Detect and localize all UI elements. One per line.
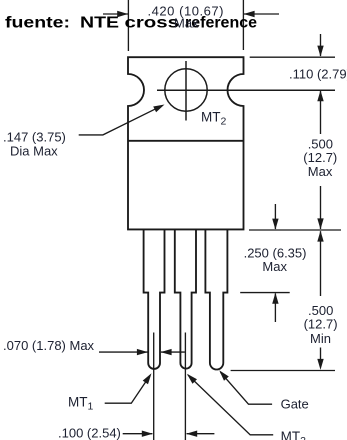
- svg-text:Max: Max: [174, 16, 199, 31]
- dim .420 left arrow shaft: [103, 13, 128, 15]
- arrowhead .070 left: [137, 349, 148, 355]
- lead1 center extension line: [153, 333, 155, 440]
- arrowhead MT2 leader: [187, 374, 197, 384]
- arrowhead .100 right: [186, 431, 197, 437]
- extension line at package top right: [250, 56, 335, 58]
- svg-text:MT2: MT2: [281, 429, 307, 440]
- dim .500 Max line lower part: [320, 186, 322, 229]
- arrowhead .250 down: [272, 219, 278, 230]
- dim .420 right extension line: [242, 0, 244, 50]
- tab/body separator line: [128, 140, 244, 142]
- svg-text:.100 (2.54): .100 (2.54): [58, 426, 121, 440]
- svg-text:(12.7): (12.7): [304, 317, 338, 332]
- dim .420 left extension line: [127, 0, 129, 51]
- svg-text:MT2: MT2: [201, 110, 227, 128]
- arrowhead .500min up: [317, 231, 323, 242]
- dim .500 Min line upper part: [320, 231, 322, 296]
- extension line at lead step: [240, 292, 290, 294]
- package outline TO-220 body: [128, 57, 244, 229]
- arrowhead .500min down: [317, 359, 323, 370]
- leader MT1: [105, 376, 150, 404]
- dim .070 right shaft: [161, 351, 185, 353]
- arrowhead .420 right: [244, 11, 255, 17]
- arrowhead Gate leader: [219, 370, 229, 380]
- svg-text:fuente:: fuente:: [5, 15, 70, 32]
- dim .100 right shaft: [187, 433, 215, 435]
- dim .070 left shaft: [99, 351, 148, 353]
- arrowhead .070 right: [161, 349, 172, 355]
- svg-text:Max: Max: [262, 259, 287, 274]
- svg-text:Dia Max: Dia Max: [10, 144, 58, 159]
- dim .110 down arrow shaft: [320, 34, 322, 56]
- svg-text:Min: Min: [310, 331, 331, 346]
- arrowhead .110 down: [317, 46, 323, 57]
- svg-text:.110 (2.79): .110 (2.79): [289, 67, 347, 82]
- arrowhead .420 left: [117, 11, 128, 17]
- svg-text:NTE: NTE: [80, 15, 119, 32]
- dim .250 upper arrow shaft: [274, 204, 276, 229]
- svg-text:cross: cross: [125, 15, 180, 32]
- leader .147 dia: [79, 106, 162, 135]
- hole crosshair horizontal / extension line to right: [157, 89, 335, 91]
- hole crosshair vertical: [185, 61, 187, 121]
- arrowhead .250 up: [272, 293, 278, 304]
- svg-text:.147 (3.75): .147 (3.75): [3, 130, 66, 145]
- arrowhead .500max down: [317, 218, 323, 229]
- mounting hole: [165, 69, 207, 111]
- leader Gate: [221, 372, 273, 404]
- svg-text:(12.7): (12.7): [303, 150, 337, 165]
- dim .100 left shaft: [123, 433, 153, 435]
- svg-text:.070 (1.78) Max: .070 (1.78) Max: [3, 338, 95, 353]
- svg-text:Max: Max: [308, 164, 333, 179]
- leader MT2 bottom: [188, 375, 273, 435]
- lead2 center extension line: [184, 333, 186, 440]
- svg-text:Gate: Gate: [281, 397, 309, 412]
- arrowhead dia leader: [153, 105, 164, 113]
- svg-text:MT1: MT1: [68, 395, 94, 413]
- lead 3: [205, 229, 227, 369]
- extension line at body bottom right: [249, 229, 341, 231]
- arrowhead .100 left: [142, 431, 153, 437]
- dim .250 lower arrow shaft: [274, 293, 276, 322]
- dim .500 Max line upper part: [320, 91, 322, 134]
- arrowhead .500max up: [317, 90, 323, 101]
- dim .420 right arrow shaft: [244, 13, 279, 15]
- arrowhead MT1 leader: [143, 373, 152, 384]
- lead 1: [144, 229, 165, 369]
- lead 2: [175, 229, 196, 368]
- dim .500 Min line lower part: [320, 348, 322, 361]
- extension line at lead tips: [231, 370, 335, 372]
